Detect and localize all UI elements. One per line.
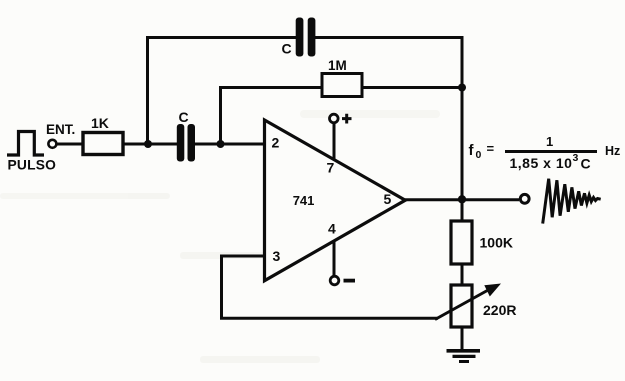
svg-text:0: 0 <box>476 149 482 161</box>
svg-text:C: C <box>179 109 189 125</box>
svg-text:1M: 1M <box>328 58 347 73</box>
svg-text:220R: 220R <box>483 302 516 318</box>
svg-text:C: C <box>581 156 591 172</box>
svg-text:Hz: Hz <box>605 144 620 158</box>
svg-text:100K: 100K <box>480 235 513 251</box>
svg-text:1K: 1K <box>91 115 109 131</box>
svg-text:7: 7 <box>327 160 335 176</box>
svg-text:=: = <box>487 141 495 156</box>
svg-text:3: 3 <box>273 248 281 264</box>
svg-text:1: 1 <box>546 134 553 149</box>
svg-text:PULSO: PULSO <box>8 157 57 172</box>
svg-text:ENT.: ENT. <box>46 122 75 137</box>
svg-text:3: 3 <box>573 152 579 164</box>
svg-text:1,85 x 10: 1,85 x 10 <box>510 155 573 171</box>
svg-text:741: 741 <box>293 193 315 208</box>
svg-text:5: 5 <box>384 191 392 207</box>
svg-text:4: 4 <box>328 221 336 237</box>
svg-text:2: 2 <box>272 135 280 151</box>
svg-text:C: C <box>282 41 292 57</box>
